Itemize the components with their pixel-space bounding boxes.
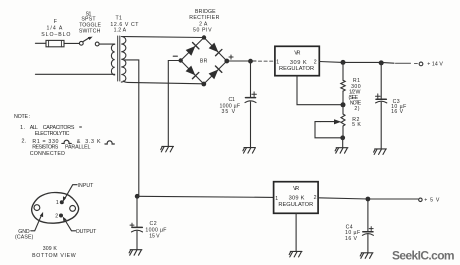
capacitor C3 label [391,99,407,115]
TO-3 package case outline [32,193,79,224]
svg-text:1.: 1. [20,125,25,131]
capacitor C1 plus [252,92,257,97]
node C4 junction [366,197,371,202]
svg-text:309 K: 309 K [290,60,307,66]
capacitor C4 plates [363,231,373,233]
node bridge left [179,58,183,62]
wire AC top lead [35,42,46,44]
resistor R1 [341,80,345,91]
svg-text:10 µF: 10 µF [345,230,361,236]
wire center tap [124,60,139,196]
svg-text:+ 5 V: + 5 V [424,198,440,204]
ground C3 [374,149,387,155]
capacitor C4 label [345,224,361,242]
switch S1 lever [83,37,90,41]
svg-text:CONNECTED: CONNECTED [30,151,66,157]
switch S1 throw circle [95,42,99,46]
svg-text:C2: C2 [150,221,158,227]
wire C1 drop [250,61,252,97]
ground C2 [129,250,142,256]
wire AC bottom lead [35,73,114,75]
ground C1 [243,148,256,154]
svg-text:SeekIC.com: SeekIC.com [392,249,455,263]
wire R1 top lead [342,62,344,80]
diode D3 bottom-left [185,65,199,79]
svg-text:OUTPUT: OUTPUT [76,229,97,235]
wire U2 ground pin [295,213,297,251]
wire fuse to switch [64,42,79,44]
diode D1 top-left [185,42,199,56]
ground C4 [360,253,373,258]
svg-text:F: F [54,19,58,25]
transformer T1 secondary winding [121,37,126,83]
bridge rectifier label [189,9,220,65]
capacitor C1 plates [246,97,256,99]
wire C4 drop [367,199,369,231]
capacitor C2 label [145,221,167,240]
svg-text:=: = [79,125,83,131]
transformer T1 label [110,16,139,34]
wire dashed to +14 terminal [396,62,418,64]
terminal +5 V [419,198,423,202]
wire C3 drop [380,63,382,99]
svg-text:(CASE): (CASE) [15,235,34,241]
switch S1 label [79,11,102,34]
svg-text:15 V: 15 V [149,234,160,240]
potentiometer R2 label [352,117,361,128]
svg-text:5 K: 5 K [352,122,361,128]
wire R1 bottom lead [342,91,344,105]
svg-text:309 K: 309 K [289,196,305,202]
svg-text:BOTTOM VIEW: BOTTOM VIEW [32,253,76,259]
diode D2 top-right [208,42,222,56]
svg-text:1000 µF: 1000 µF [145,228,167,234]
resistor R1 label [349,78,362,112]
potentiometer R2 wiper arrow [321,121,335,123]
diode D4 bottom-right [208,66,222,80]
svg-text:BR: BR [200,59,208,65]
svg-text:2: 2 [55,214,58,220]
svg-text:1/4 A: 1/4 A [47,26,63,32]
svg-text:1: 1 [56,200,59,206]
svg-text:VR: VR [293,186,300,192]
node bridge bottom [201,82,206,87]
node center tap junction [135,194,140,199]
note omega symbol 1 [62,140,72,143]
wire U1 ground pin to divider [297,76,341,105]
regulator U2 box [274,182,319,214]
svg-text:K: K [97,139,101,145]
note text block [14,114,101,157]
svg-text:35 V: 35 V [222,109,236,115]
potentiometer R2 [341,114,345,126]
svg-text:2: 2 [314,59,317,65]
svg-text:1.2 A: 1.2 A [114,28,127,34]
svg-text:RECTIFIER: RECTIFIER [189,15,220,21]
svg-text:16 V: 16 V [345,236,358,242]
bridge edge wires [181,38,227,85]
svg-text:16 V: 16 V [391,109,404,115]
capacitor C2 plus [130,223,134,227]
svg-text:ELECTROLYTIC: ELECTROLYTIC [35,131,70,137]
TO-3 output leader [65,220,76,231]
wire secondary bottom lead to bridge [123,81,204,84]
svg-text:REGULATOR: REGULATOR [279,66,315,72]
node bridge right [224,59,229,64]
node C1 junction [248,59,253,64]
switch S1 lever arrowhead [88,37,93,40]
wire bridge plus to C1 node [227,60,256,62]
svg-text:+ 14 V: + 14 V [427,62,443,68]
svg-text:INPUT: INPUT [78,183,95,189]
bridge minus sign [173,55,177,57]
terminal +14 V [419,62,423,66]
wire U1 output rail [319,62,394,64]
wire switch to primary [99,43,114,45]
capacitor C2 plates [132,226,142,228]
svg-text:VR: VR [294,51,301,57]
wire U2 output [318,198,418,199]
TO-3 labels [15,183,97,259]
svg-text:SLO–BLO: SLO–BLO [41,32,71,38]
svg-text:309 K: 309 K [43,246,58,252]
TO-3 mounting hole left [34,205,40,211]
wire lower rail to U2 [137,196,273,197]
regulator U1 text [276,51,317,72]
svg-text:2: 2 [314,195,317,201]
wire C3 to ground [380,102,382,148]
svg-text:1: 1 [276,59,279,65]
TO-3 gnd leader [31,215,42,231]
wire bridge minus to ground [168,61,180,146]
capacitor C3 plates [376,98,386,100]
TO-3 pin 1 [60,200,64,204]
regulator U1 box [275,46,319,75]
transformer T1 primary winding [111,44,114,75]
fuse F end caps [49,40,62,46]
capacitor C4 plus [369,227,373,231]
fuse F body [46,40,64,46]
node R1 bottom [341,102,346,107]
svg-text:SWITCH: SWITCH [79,28,101,34]
svg-text:RESISTORS: RESISTORS [32,145,59,151]
wire dashed to regulator U1 [259,60,275,62]
node R1 top [341,60,346,65]
TO-3 input leader [64,185,77,200]
switch S1 pole circle [79,41,83,45]
ground bridge minus [161,146,174,152]
svg-text:PARALLEL: PARALLEL [65,145,91,151]
svg-text:C1: C1 [229,97,236,103]
wire C2 to ground [136,231,138,249]
wire R2 wiper strap [315,122,340,138]
wire C2 drop [136,196,138,227]
transformer T1 core [118,36,120,81]
wire R2 to ground [342,126,344,147]
bridge plus sign [229,55,233,59]
wire R1 to R2 [342,105,344,114]
svg-text:NOTE :: NOTE : [14,114,31,120]
svg-text:1: 1 [275,196,278,202]
capacitor C1 label [220,97,241,115]
note omega symbol 2 [105,141,115,144]
svg-text:2): 2) [354,106,360,112]
capacitor C3 plus [376,94,381,99]
wire secondary top lead to bridge [123,37,205,38]
svg-text:T1: T1 [116,16,123,22]
TO-3 mounting hole right [70,206,76,212]
ground R2 [335,148,348,154]
node R2 bottom [340,135,345,140]
svg-text:2.: 2. [22,139,27,145]
ground U2 [289,251,302,257]
TO-3 pin labels [55,200,59,219]
wire C1 to ground [250,102,252,147]
node C3 top [379,60,384,65]
wire C4 to ground [367,235,369,253]
svg-text:REGULATOR: REGULATOR [278,202,313,208]
regulator U2 text [275,186,317,208]
node bridge top [202,35,206,39]
fuse F label [41,19,71,38]
svg-text:50 PIV: 50 PIV [193,27,212,33]
TO-3 pin 2 [59,214,63,218]
